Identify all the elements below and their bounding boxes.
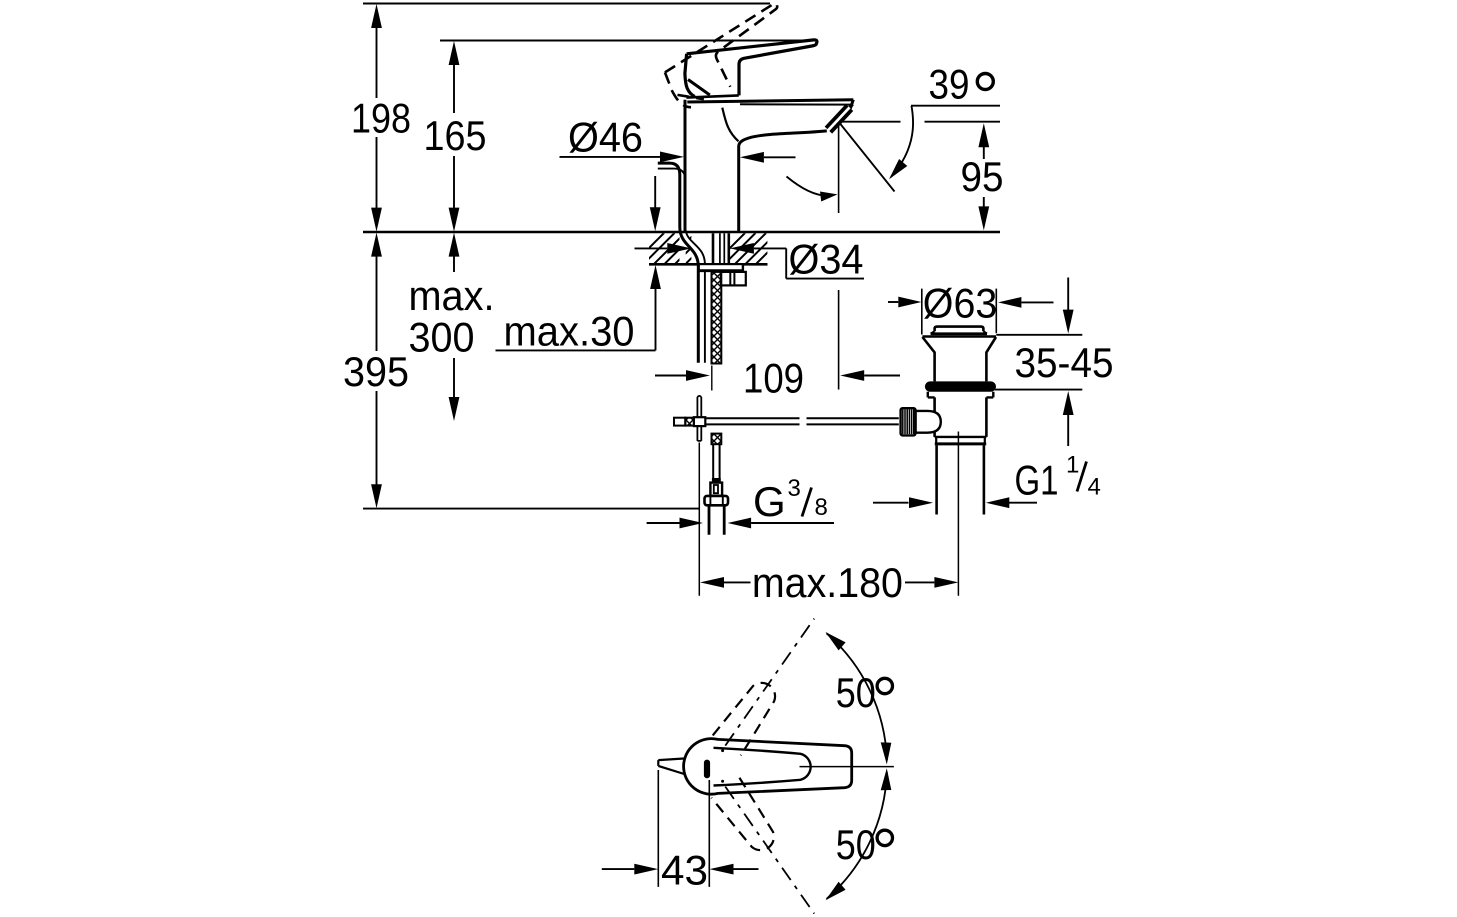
extension line: spout outlet vertical: [838, 122, 840, 389]
handle centerline horizontal: [800, 766, 894, 768]
dimension 43 arrows: [602, 868, 635, 870]
knurled adjustment knob: [901, 408, 916, 435]
svg-text:39: 39: [929, 61, 970, 108]
50° arc top with arrowheads: [827, 633, 887, 760]
svg-text:Ø46: Ø46: [568, 114, 643, 161]
faucet axis stub between breaks: [711, 366, 713, 391]
handle top view inner contour: [714, 748, 811, 786]
svg-text:8: 8: [815, 494, 828, 521]
handle base front diagonal: [688, 80, 710, 96]
faucet body right edge: [737, 147, 740, 232]
dimension 35-45 arrows and label: [995, 335, 1083, 390]
handle base left edge: [685, 54, 695, 97]
50° arc bottom with arrowheads: [827, 772, 887, 899]
threaded mounting rod (cross-hatched): [712, 272, 722, 364]
spout top edge: [687, 100, 853, 102]
svg-text:50: 50: [836, 821, 876, 868]
svg-text:300: 300: [409, 314, 475, 361]
dimension max.300 vertical line with arrows: [449, 233, 460, 421]
aerator outer stroke tip extension: [850, 104, 853, 107]
mounting nut under washer: [721, 272, 746, 286]
handle lever lifted position (dashed): [657, 3, 801, 112]
dashed centerline 50° down: [725, 787, 814, 914]
rod tube below: [713, 444, 719, 478]
countertop section: hatching left band: [633, 233, 717, 264]
aerator outlet white slit: [827, 106, 851, 132]
drain flange: [922, 335, 996, 338]
handle surface dots: [721, 749, 724, 752]
countertop section: hatching right band: [714, 233, 787, 264]
svg-text:G: G: [753, 478, 786, 525]
39° water stream ray: [839, 122, 895, 192]
pull rod ball connector: [916, 411, 941, 433]
handle top view outer contour: [684, 739, 852, 795]
dimension G3/8 arrows and label: [647, 522, 680, 524]
threaded shank in counter hole: [713, 233, 729, 263]
dimension 165 vertical line with arrows: [449, 41, 460, 232]
svg-text:1: 1: [1066, 451, 1079, 478]
degree ring of 39°: [977, 74, 993, 90]
svg-text:109: 109: [743, 354, 804, 401]
pull rod tee knob: [674, 418, 685, 426]
supply pipe below connector: [709, 505, 724, 534]
dimension max.30 arrows at countertop: [496, 176, 661, 350]
dimension Ø34 arrows and label: [635, 247, 668, 249]
svg-text:50: 50: [836, 669, 876, 716]
G3/8 connector nut: [705, 496, 729, 505]
svg-text:Ø34: Ø34: [789, 236, 864, 283]
reference line: bottom of supply pipes (395 ref): [363, 508, 699, 510]
dashed centerline +50° up: [725, 619, 814, 746]
handle base seat line on body: [687, 95, 739, 97]
svg-text:max.30: max.30: [504, 308, 635, 355]
svg-text:95: 95: [961, 153, 1004, 200]
handle lever (solid, rest position): [687, 40, 817, 96]
faucet body left edge: [684, 100, 687, 231]
svg-text:165: 165: [424, 112, 487, 159]
drain cap: [935, 327, 984, 332]
dimension G1 1/4 arrows and label: [873, 502, 909, 504]
handle pivot slot (black): [704, 760, 710, 779]
drain tailpipe: [937, 445, 984, 514]
svg-text:G1: G1: [1015, 457, 1059, 504]
svg-text:max.180: max.180: [752, 559, 903, 606]
spout top bevel line: [740, 103, 852, 105]
pop-up drain assembly: [901, 327, 996, 596]
flexible supply hose inner wall: [658, 169, 705, 363]
drain O-ring (black): [925, 381, 996, 391]
dimension 198 vertical line with arrows: [371, 4, 382, 232]
drain bottom flange: [935, 436, 987, 438]
mounting washer plate under counter: [698, 265, 744, 272]
extension line: top of lifted lever (198 ref): [363, 3, 770, 5]
svg-text:198: 198: [351, 94, 411, 141]
dimension 395 vertical line with arrows: [371, 233, 382, 509]
aerator outlet face band: [828, 108, 849, 131]
svg-text:3: 3: [788, 475, 801, 502]
drain body below O-ring: [928, 392, 994, 398]
drain centerline: [957, 432, 959, 596]
svg-text:Ø63: Ø63: [923, 279, 998, 326]
svg-text:43: 43: [661, 847, 708, 894]
svg-text:35-45: 35-45: [1015, 339, 1114, 386]
spout underside curve: [739, 131, 827, 147]
39° horizontal leg: [911, 105, 1000, 107]
extension line: faucet pipe centerline down to max.180: [698, 443, 700, 596]
dimension 43 extension lines: [658, 770, 709, 887]
stream swivel arc arrow under spout: [787, 177, 831, 196]
threaded rod lower section (cross-hatched square): [712, 434, 722, 445]
dimension 95 vertical line with arrows: [978, 123, 989, 230]
spout interior curve: [722, 108, 738, 142]
dashed handle position -50°: [711, 778, 782, 858]
svg-text:395: 395: [343, 348, 409, 395]
svg-text:4: 4: [1088, 474, 1101, 501]
horizontal linkage rod to drain (with break): [705, 418, 899, 424]
flexible supply hose outer wall: [658, 163, 699, 363]
rod end fitting: [710, 483, 722, 496]
pull rod (vertical): [697, 396, 701, 441]
spout tip right edge: [849, 100, 853, 112]
countertop bottom surface line: [649, 263, 768, 266]
dimension 109 arrows and label: [655, 375, 686, 377]
temperature indicator tab: [658, 758, 686, 774]
extension line: top of lever rest position (165 ref): [440, 40, 812, 42]
39° arc with arrowhead: [891, 106, 913, 177]
countertop top surface line: [363, 231, 1000, 234]
dimension max.180 arrows and label: [700, 577, 724, 588]
dimension Ø63 arrows and label: [922, 289, 997, 335]
dashed handle position +50°: [713, 675, 784, 755]
svg-text:max.: max.: [409, 272, 495, 319]
rod dark collar: [712, 478, 721, 483]
outlet horizontal reference (95 top): [840, 121, 1000, 123]
flexible supply hose (white corridor): [658, 163, 705, 363]
